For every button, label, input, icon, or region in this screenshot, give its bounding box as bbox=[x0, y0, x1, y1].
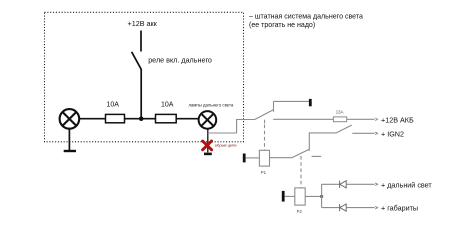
junction node on bus bbox=[139, 116, 144, 121]
svg-text:+12В акк: +12В акк bbox=[128, 19, 158, 28]
bus wire: fuse F1 to fuse F2 bbox=[125, 118, 156, 120]
wire to diode VD1 bbox=[322, 183, 340, 185]
relay switch blade (реле вкл. дальнего) bbox=[132, 52, 142, 70]
cut mark: red X (обрыв цепи) bbox=[203, 141, 212, 150]
arrow to +12В АКБ bbox=[375, 118, 377, 121]
relay P1 contact blade (SPDT) bbox=[255, 110, 274, 120]
fuse F2 10А bbox=[156, 114, 177, 122]
wire from switch down to fuse bus bbox=[140, 69, 142, 119]
arrow to + габариты bbox=[375, 206, 377, 209]
diode VD1 bbox=[340, 181, 347, 188]
arrow to +IGN2 bbox=[375, 132, 377, 135]
mechanical link: P1 coil to contact bbox=[264, 125, 266, 150]
stock wire stub from P1 NC bbox=[274, 100, 310, 102]
relay coil P2 bbox=[295, 188, 305, 205]
ground bar at P2 coil bbox=[282, 191, 285, 202]
svg-text:реле вкл. дальнего: реле вкл. дальнего bbox=[148, 55, 212, 64]
wire ground bar to P1 coil bbox=[246, 157, 260, 159]
fuse F3 13А bbox=[333, 117, 346, 122]
svg-text:– штатная система дальнего све: – штатная система дальнего света bbox=[249, 14, 363, 21]
wire fuse F3 to +12В АКБ bbox=[347, 118, 375, 120]
bus wire: fuse F2 to right lamp bbox=[176, 118, 198, 120]
wire diode VD2 to arrow bbox=[346, 207, 374, 209]
svg-text:(ее трогать не надо): (ее трогать не надо) bbox=[249, 22, 315, 29]
wire ground bar to P2 coil bbox=[285, 195, 295, 197]
relay coil P1 bbox=[259, 150, 269, 166]
terminal bar: stock wire end bbox=[309, 99, 312, 106]
junction node at diodes bbox=[320, 195, 323, 198]
diode VD2 bbox=[340, 204, 347, 211]
wire from +12В акк down to relay switch bbox=[140, 31, 142, 52]
wire P2 contact to relay coil P1 bbox=[270, 157, 293, 159]
P1 NO contact tick bbox=[264, 120, 266, 124]
lamp EL1 (left high-beam lamp) bbox=[60, 109, 80, 129]
svg-text:+12В АКБ: +12В АКБ bbox=[381, 115, 414, 124]
ignition switch blade (open) bbox=[336, 125, 351, 133]
wire lamp EL2 down through cut point bbox=[207, 129, 209, 153]
relay P2 contact blade bbox=[292, 149, 309, 157]
bus wire: left lamp to fuse F1 bbox=[80, 118, 106, 120]
wire from +IGN2 bbox=[352, 132, 374, 134]
wire lamp EL1 to ground bbox=[68, 129, 70, 151]
lamp EL2 (right high-beam lamp) bbox=[199, 111, 217, 129]
ground bar at P1 coil bbox=[243, 154, 246, 163]
svg-text:Р1: Р1 bbox=[261, 170, 267, 175]
riser between diode branches bbox=[321, 184, 323, 207]
svg-text:лампы дальнего света: лампы дальнего света bbox=[189, 103, 234, 108]
svg-text:Р2: Р2 bbox=[297, 209, 303, 214]
svg-text:+ дальний свет: + дальний свет bbox=[381, 180, 432, 189]
wire IGN2 switch to P2 contact riser bbox=[309, 133, 336, 151]
mechanical link: P2 coil to contact bbox=[300, 156, 302, 187]
wire diode VD1 to arrow bbox=[346, 183, 374, 185]
svg-text:10А: 10А bbox=[107, 102, 120, 109]
wire to diode VD2 bbox=[322, 207, 340, 209]
P2 NO contact dash bbox=[312, 155, 322, 157]
svg-text:+ габариты: + габариты bbox=[381, 204, 418, 213]
dashed enclosure: штатная система дальнего света bbox=[45, 12, 244, 142]
branch wire from lamp EL2 out of box to relay P1 common bbox=[208, 120, 255, 134]
P1 NC contact riser bbox=[273, 101, 275, 111]
fuse F1 10А bbox=[106, 114, 125, 122]
svg-text:13А: 13А bbox=[336, 109, 344, 114]
svg-text:+ IGN2: + IGN2 bbox=[381, 129, 404, 138]
ground bar under lamp EL1 bbox=[64, 150, 76, 152]
wire P1 NO contact to fuse F3 bbox=[273, 118, 333, 120]
svg-text:10А: 10А bbox=[161, 102, 174, 109]
wire P2 coil to diode junction bbox=[305, 195, 321, 197]
svg-text:обрыв цепи: обрыв цепи bbox=[215, 143, 237, 148]
stub bar: cut stock wire end (to ground) bbox=[204, 153, 212, 156]
arrow to + дальний свет bbox=[375, 183, 377, 186]
